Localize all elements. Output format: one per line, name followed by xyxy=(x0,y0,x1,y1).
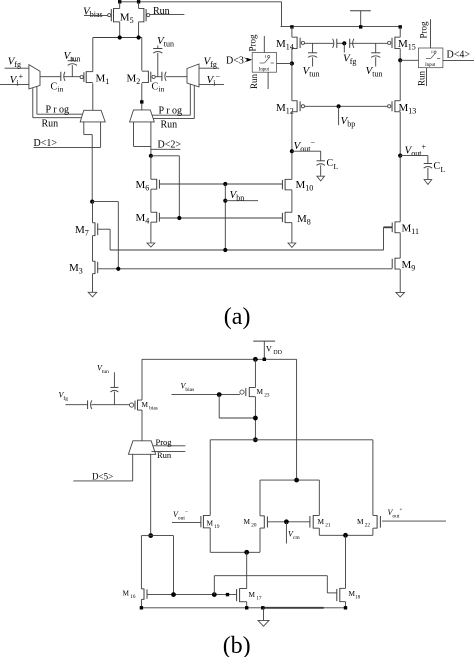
label Run with wire from M5 right gate xyxy=(150,14,185,16)
wire: M4 source to ground xyxy=(150,222,152,243)
node: tail to M18 dot xyxy=(343,533,348,538)
transistor M8 (NMOS, gate at left) xyxy=(285,211,292,213)
mux: input selection mux for M2 (Vfg / Vi-) xyxy=(187,64,199,87)
transistor M5 (right PMOS of pair, gate Run) xyxy=(139,7,144,9)
svg-text:L: L xyxy=(334,162,339,171)
svg-text:Input: Input xyxy=(425,63,436,68)
wire: D2 switch right leg xyxy=(150,122,152,156)
svg-text:Input: Input xyxy=(259,68,270,73)
svg-text:Run: Run xyxy=(417,70,427,86)
wire: M12 drain down to Vout- node xyxy=(291,112,293,151)
wire: D2 switch output step xyxy=(133,122,135,146)
node: M2 drain junction (square) xyxy=(140,100,143,103)
wire: mux select Run (left) xyxy=(32,88,34,118)
transistor M6 (NMOS cascode, gate at right) xyxy=(151,178,157,180)
junction dot Vbn top xyxy=(223,182,227,186)
transistor Mbias (PMOS, gate at left) xyxy=(138,399,143,401)
svg-text:C: C xyxy=(152,82,159,93)
capacitor Cin (left input coupling cap) xyxy=(60,72,62,81)
wire: M20 drain up xyxy=(259,480,261,516)
capacitor Vtun right (tunneling junction, M15 gate) xyxy=(375,43,377,53)
wire: M3 source to ground xyxy=(92,274,94,293)
transistor M19 (NMOS, gate at left) xyxy=(203,514,210,516)
ground below right CL xyxy=(424,180,432,185)
capacitor Vtun left (tunneling junction, M14 gate) xyxy=(312,43,314,53)
wire: M9 source to ground xyxy=(399,269,401,292)
wire: M15 drain to M13 source xyxy=(399,60,401,100)
wire: mux select Run (right) xyxy=(193,85,195,118)
wire: M16-M17 gate line xyxy=(147,594,237,596)
node: rail square M17 xyxy=(245,606,248,609)
wire: M14 drain to M12 source xyxy=(291,64,293,101)
svg-text:D<3>: D<3> xyxy=(226,56,250,67)
wire: Vfg to input cap xyxy=(65,404,87,406)
node Vcm with stub xyxy=(284,519,289,524)
transistor M10 (NMOS cascode, gate at left) xyxy=(285,178,292,180)
svg-text:P r og: P r og xyxy=(46,104,70,115)
node: rail junction square xyxy=(263,358,266,361)
wire: branch to M3 gate (diode connection) xyxy=(92,201,118,203)
transistor M17 (NMOS, gate at left) xyxy=(240,588,247,590)
node: rail square M16 xyxy=(140,606,143,609)
wire: M21 source to tail xyxy=(318,528,320,535)
wire: M16 source to ground rail xyxy=(140,599,142,607)
transistor M14 (PMOS, gate at right) xyxy=(292,36,297,38)
node Vout- with label xyxy=(290,149,294,153)
junction dot on M4 gate line xyxy=(177,216,181,220)
node: summing junction below D2 xyxy=(149,154,153,158)
mux: input selection mux for M1 (Vfg / Vi+) xyxy=(29,65,40,89)
wire: branch to M16 gate loop xyxy=(151,535,174,537)
node: M15 source junction (square) xyxy=(399,25,402,28)
transistor M7 (NMOS cascode, gate at right) xyxy=(93,222,96,224)
wire: Vout- to load cap CL xyxy=(292,150,321,152)
transistor M16 (NMOS, gate at right) xyxy=(141,588,144,590)
wire: D4 Run line (vertical) xyxy=(426,68,428,86)
wire: M2 drain to D2 switch xyxy=(141,83,143,110)
node: tail junction above M7 xyxy=(90,200,94,204)
wire: Vout+ down to M11 drain xyxy=(399,156,401,222)
wire: D1 switch output step xyxy=(83,122,85,135)
ground below left CL xyxy=(317,176,325,181)
svg-text:Prog: Prog xyxy=(247,34,257,52)
transistor M5 (left PMOS of pair, gate Vbias) xyxy=(114,7,120,9)
wire: mux select Prog (left) xyxy=(36,87,38,115)
ground below M8 xyxy=(288,243,296,247)
junction dot M5 right drain xyxy=(137,35,141,39)
capacitor Cin (right input coupling cap) xyxy=(161,72,163,81)
junction dot on M3 gate line xyxy=(116,267,120,271)
wire: M22 source to tail xyxy=(372,528,374,535)
node: bias distribution dot (fig b) xyxy=(148,533,153,538)
wire: M2 gate to Cin cap xyxy=(155,76,162,78)
wire: M11 source to M9 drain xyxy=(399,233,401,258)
node: tail to M17 dot xyxy=(244,550,249,555)
ground symbol (fig b) xyxy=(263,608,265,621)
wire: branch to M16 drain xyxy=(141,535,150,537)
wire: mid supply rail xyxy=(281,26,401,28)
svg-text:(b): (b) xyxy=(223,633,251,657)
node: M5 left source junction (square) xyxy=(118,0,121,3)
supply symbol VDD bar (fig a) xyxy=(350,10,371,12)
wire: M10 source to M8 drain xyxy=(291,190,293,212)
wire: down to M6 drain xyxy=(150,156,152,179)
wire: M6-M10 gate line (Vbn cascode) xyxy=(159,183,282,185)
node Vout+ with label xyxy=(398,154,402,158)
wire: M19 source to tail xyxy=(209,528,211,552)
wire: down to M1 source xyxy=(92,38,94,72)
ground below M4 xyxy=(147,243,155,247)
wire: M4-M8 gate line xyxy=(159,217,282,219)
wire: M21/M22 tail xyxy=(319,534,373,536)
node: rail square M18 xyxy=(344,606,347,609)
capacitor: left Vfg coupling cap xyxy=(336,39,338,48)
node: M23 to drain bus dot xyxy=(253,437,258,442)
svg-text:Prog: Prog xyxy=(418,21,428,39)
svg-text:in: in xyxy=(159,85,165,94)
node: rail junction dot xyxy=(253,357,258,362)
wire: D3 Prog line (vertical) xyxy=(263,36,265,53)
wire: M14 gate to coupling caps xyxy=(305,42,334,44)
svg-text:Prog: Prog xyxy=(156,437,173,447)
transistor M22 (NMOS, gate at right) xyxy=(373,514,377,516)
switch mux D<5> (trapezoid) xyxy=(128,441,155,455)
wire: Vbn vertical xyxy=(224,184,226,250)
wire: M23 source up to rail xyxy=(254,359,256,387)
transistor M2 (PMOS input, gate at right) xyxy=(142,70,149,72)
wire: M21 drain up xyxy=(318,480,320,515)
capacitor CL (left load cap) xyxy=(317,160,325,162)
wire: M6 source to M4 drain xyxy=(150,189,152,212)
svg-text:Run: Run xyxy=(161,120,178,131)
node: M5 right source junction (square) xyxy=(137,0,140,3)
wire: thick rail segment xyxy=(264,607,324,609)
wire: M20/M21 drain link xyxy=(260,479,319,481)
transistor M9 (NMOS, gate at left) xyxy=(395,257,400,259)
transistor M12 (PMOS cascode, gate at right) xyxy=(292,100,297,102)
capacitor: input coupling cap (fig b) xyxy=(87,400,89,409)
wire: M11 gate jog to cascode line xyxy=(384,226,393,228)
svg-text:C: C xyxy=(327,158,334,169)
wire: M23 drain down xyxy=(254,397,256,440)
wire: drain bus M19-M22 (fig b) xyxy=(210,439,373,441)
ground below M9 xyxy=(396,292,405,297)
wire: D<5> select line xyxy=(132,454,134,481)
svg-text:D<1>: D<1> xyxy=(34,138,58,149)
wire: M19/M20 tail xyxy=(210,551,260,553)
wire: M10 drain up to Vout- node xyxy=(291,151,293,179)
svg-text:Run: Run xyxy=(157,450,172,460)
switch mux D<1> (trapezoid) xyxy=(80,110,105,122)
svg-text:C: C xyxy=(434,161,441,172)
transistor M15 (PMOS, gate at left) xyxy=(395,36,400,38)
node: gate line dot (mirror tap) xyxy=(212,592,217,597)
transistor M13 (PMOS cascode, gate at left) xyxy=(395,100,400,102)
wire: M12-M13 gate line (Vbp) xyxy=(305,105,388,107)
wire: D3 box output to M14 drain xyxy=(277,63,292,65)
transistor M3 (NMOS, gate at right) xyxy=(93,260,96,262)
switch mux D<2> (trapezoid) xyxy=(130,110,155,122)
svg-text:Run: Run xyxy=(249,73,259,89)
junction dot M5 left drain xyxy=(118,35,122,39)
node: M14 drain / D3 output junction xyxy=(290,61,294,65)
node: gate line square xyxy=(226,593,229,596)
wire: Vbias to M23 gate xyxy=(172,394,240,396)
svg-text:L: L xyxy=(441,165,446,174)
wire: top supply rail of figure (a) xyxy=(119,1,282,3)
wire: cap to Mbias gate xyxy=(91,404,129,406)
capacitor: right Vfg coupling cap xyxy=(349,39,351,48)
wire: M1 gate to Cin cap xyxy=(64,76,81,78)
wire: Mbias drain to D5 switch xyxy=(141,410,143,441)
wire: D4 Prog line (vertical) xyxy=(430,19,432,48)
wire: M5 drains to M1/M2 sources xyxy=(93,37,142,39)
node: rail square ground tap xyxy=(261,606,264,609)
node: Vbias diode junction dot xyxy=(217,392,222,397)
wire: left mux output to Cin xyxy=(40,76,61,78)
wire: M1 drain to D1 switch xyxy=(92,83,94,110)
wire: M7 source to M3 drain xyxy=(92,236,94,262)
node: supply junction (square) xyxy=(359,25,362,28)
wire: Vout+ to load cap CL xyxy=(400,155,428,157)
node Vfg (dot) with stub xyxy=(342,41,346,45)
wire: cap to M15 gate xyxy=(350,42,388,44)
svg-text:D<4>: D<4> xyxy=(447,50,471,61)
capacitor CL (right load cap) xyxy=(424,163,432,165)
transistor M21 (NMOS, gate at left) xyxy=(313,514,319,516)
wire: D5 output down xyxy=(150,454,152,535)
wire: down to M2 source xyxy=(141,38,143,71)
transistor M23 (PMOS, gate at left) xyxy=(249,387,255,389)
switch box D<3> (Prog/Run input switch) xyxy=(252,53,276,73)
svg-text:Run: Run xyxy=(153,6,170,17)
wire: Prog select stub (fig b) xyxy=(153,445,185,447)
svg-text:D<5>: D<5> xyxy=(92,472,113,482)
node: M15 drain / D4 input junction xyxy=(398,58,402,62)
svg-text:(a): (a) xyxy=(224,304,251,330)
wire: M7 gate jog to cascode line xyxy=(98,228,110,230)
wire: M18 source to ground rail xyxy=(345,602,347,608)
switch box D<4> (Prog/Run input switch) xyxy=(419,48,443,68)
wire: Mbias source up to VDD rail xyxy=(141,359,143,400)
transistor M4 (NMOS, gate at right) xyxy=(151,211,157,213)
wire: M20-M21 gate line xyxy=(267,521,310,523)
transistor M20 (NMOS, gate at right) xyxy=(260,515,264,517)
wire: branch to M4 gate xyxy=(151,155,179,157)
svg-text:in: in xyxy=(58,85,64,94)
supply symbol VDD (fig b) xyxy=(253,340,275,342)
node: drain link to VDD wire dot xyxy=(294,478,299,483)
wire: Run select stub (fig b) xyxy=(152,451,186,453)
wire: M20 source to tail xyxy=(259,528,261,552)
wire: tail down to M17 drain xyxy=(246,552,248,588)
wire: M23 diode connection loop xyxy=(218,395,220,418)
wire: M17 source to ground rail xyxy=(246,602,248,608)
wire: mirror line up and over to M18 gate xyxy=(213,576,215,595)
node: M14 source junction (square) xyxy=(290,25,293,28)
wire: M8 source to ground xyxy=(291,223,293,243)
transistor M18 (NMOS, gate at left) xyxy=(340,587,346,589)
node: gate line dot (M16 diode) xyxy=(171,592,176,597)
wire: cap to Vfg dot xyxy=(337,42,345,44)
svg-text:C: C xyxy=(51,82,58,93)
svg-text:Run: Run xyxy=(42,119,59,130)
wire: D4 box output xyxy=(443,59,474,61)
wire: VDD rail (fig b) xyxy=(142,358,297,360)
wire: Cin to right mux output xyxy=(166,76,187,78)
transistor M1 (PMOS input, gate at left) xyxy=(86,71,93,73)
node Vbp with stub xyxy=(337,104,341,108)
wire: ground rail (fig b) xyxy=(141,607,345,609)
transistor M11 (NMOS cascode, gate at left) xyxy=(395,221,400,223)
wire: M13 drain down to Vout+ node xyxy=(399,112,401,156)
junction dot cascode line / Vbn xyxy=(223,248,227,252)
wire: D<1> select line xyxy=(100,122,102,147)
svg-text:P r og: P r og xyxy=(159,105,183,116)
node Vbn with stub xyxy=(223,199,227,203)
wire: rail right end down to M20/M21 drains xyxy=(296,359,298,480)
wire: mux select Prog (right) xyxy=(189,84,191,115)
wire: D3 Run line (vertical) xyxy=(267,72,269,89)
wire: tail down to M18 drain xyxy=(345,535,347,588)
node: M23 drain dot xyxy=(253,416,258,421)
wire: M15 drain to D4 box xyxy=(400,59,418,61)
ground below M3 xyxy=(88,292,97,297)
wire: cascode bias line M7-M11 xyxy=(110,249,383,251)
wire: M3-M9 gate line xyxy=(98,268,393,270)
